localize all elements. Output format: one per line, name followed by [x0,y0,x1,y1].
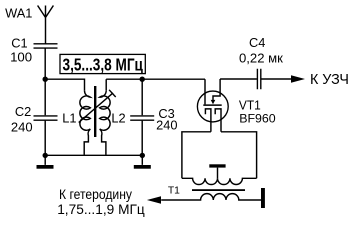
svg-text:1,75...1,9 МГц: 1,75...1,9 МГц [57,202,145,217]
svg-text:L1: L1 [62,110,76,125]
svg-text:К гетеродину: К гетеродину [59,186,133,202]
svg-text:К УЗЧ: К УЗЧ [310,72,349,88]
svg-text:240: 240 [11,120,33,135]
svg-text:0,22 мк: 0,22 мк [239,51,283,66]
svg-text:BF960: BF960 [239,111,276,125]
svg-text:L2: L2 [111,111,125,126]
svg-text:C4: C4 [249,35,265,50]
svg-text:3,5...3,8 МГц: 3,5...3,8 МГц [63,56,144,75]
svg-text:240: 240 [156,117,177,132]
svg-text:WA1: WA1 [5,5,32,20]
svg-text:C1: C1 [11,35,27,50]
svg-text:T1: T1 [168,186,180,197]
svg-text:C2: C2 [15,104,31,119]
svg-text:100: 100 [10,50,32,65]
